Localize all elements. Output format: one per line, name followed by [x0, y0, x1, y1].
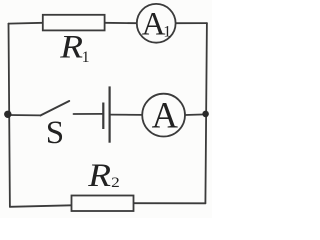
svg-text:R: R	[59, 29, 83, 66]
wire R1 to A1	[105, 22, 137, 24]
svg-text:1: 1	[163, 24, 171, 41]
resistor R2	[72, 196, 134, 212]
ammeter A1 circle	[137, 4, 176, 43]
battery positive plate (long)	[108, 86, 110, 142]
wire ammeter A to right node	[185, 113, 206, 116]
svg-text:R: R	[87, 157, 111, 194]
wire right vertical	[205, 23, 207, 203]
battery negative plate (short)	[102, 103, 104, 130]
wire A1 to top-right corner	[176, 22, 207, 24]
junction node left	[4, 111, 11, 118]
wire top-left to R1	[9, 22, 43, 25]
ammeter A circle	[142, 94, 185, 137]
wire R2 to bottom-right corner	[134, 202, 206, 204]
svg-text:S: S	[46, 115, 64, 151]
svg-text:2: 2	[111, 175, 120, 191]
wire left node to switch	[8, 114, 40, 116]
wire battery to ammeter A	[110, 114, 143, 116]
resistor R1	[43, 15, 105, 31]
svg-text:1: 1	[82, 49, 90, 66]
svg-text:A: A	[142, 7, 166, 43]
wire switch to battery	[74, 113, 104, 115]
wire left vertical	[9, 24, 10, 207]
wire bottom-left to R2	[10, 205, 72, 207]
junction node right	[202, 111, 209, 118]
switch S blade	[41, 101, 70, 115]
svg-text:A: A	[152, 95, 179, 136]
